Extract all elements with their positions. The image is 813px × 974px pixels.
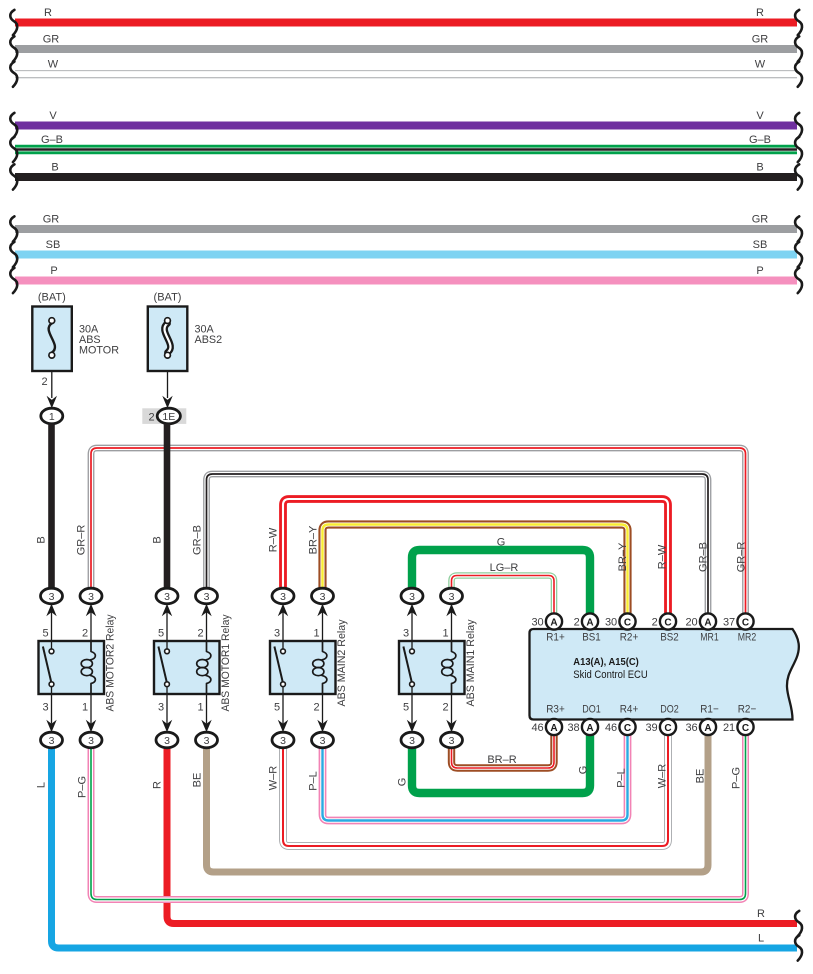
svg-text:A: A bbox=[586, 723, 593, 734]
pin lead bottom-left bbox=[166, 687, 168, 724]
connector oval 3 (top) bbox=[80, 588, 102, 604]
connector node 1 bbox=[41, 408, 63, 424]
svg-text:1: 1 bbox=[313, 628, 319, 640]
connector oval 3 (bottom) bbox=[401, 732, 423, 748]
svg-text:3: 3 bbox=[274, 628, 280, 640]
svg-text:(BAT): (BAT) bbox=[38, 292, 66, 304]
svg-text:BE: BE bbox=[192, 773, 204, 788]
svg-text:3: 3 bbox=[449, 735, 455, 747]
svg-text:L: L bbox=[36, 782, 48, 788]
ECU pin 38 DO1 bbox=[582, 719, 598, 735]
svg-text:38: 38 bbox=[567, 722, 579, 734]
svg-text:30: 30 bbox=[531, 617, 543, 629]
svg-text:C: C bbox=[624, 617, 631, 628]
svg-text:G: G bbox=[497, 537, 506, 549]
svg-text:B: B bbox=[756, 162, 763, 174]
svg-text:5: 5 bbox=[403, 702, 409, 714]
wire B (fuse 1 to relay1 pin5) bbox=[48, 424, 55, 589]
svg-text:3: 3 bbox=[403, 628, 409, 640]
ECU A13(A), A15(C) Skid Control ECU bbox=[530, 629, 799, 720]
pin lead top-left bbox=[282, 612, 284, 650]
pin lead bottom-right bbox=[90, 694, 92, 724]
svg-text:R4+: R4+ bbox=[620, 703, 639, 715]
svg-text:B: B bbox=[36, 536, 48, 543]
svg-text:C: C bbox=[742, 617, 749, 628]
connector oval 3 (top) bbox=[272, 588, 294, 604]
svg-text:2: 2 bbox=[652, 617, 658, 629]
svg-text:3: 3 bbox=[204, 591, 210, 603]
wire P bbox=[15, 277, 797, 285]
svg-text:ABS MOTOR2 Relay: ABS MOTOR2 Relay bbox=[105, 614, 117, 712]
pin lead bottom-left bbox=[411, 687, 413, 724]
ECU pin 36 R1− bbox=[700, 719, 716, 735]
svg-text:L: L bbox=[758, 933, 764, 945]
svg-text:1: 1 bbox=[49, 411, 55, 423]
wire R-W (relay3 pin3 to ECU BS2) bbox=[283, 499, 668, 614]
connector oval 3 (top) bbox=[312, 588, 334, 604]
svg-text:C: C bbox=[624, 723, 631, 734]
fuse pin 2 lead bbox=[51, 371, 53, 398]
svg-text:A: A bbox=[704, 723, 711, 734]
svg-text:3: 3 bbox=[42, 702, 48, 714]
svg-text:5: 5 bbox=[274, 702, 280, 714]
wire W bbox=[15, 70, 797, 78]
ECU pin 30 R2+ bbox=[619, 613, 635, 629]
svg-text:P: P bbox=[50, 265, 57, 277]
svg-text:20: 20 bbox=[685, 617, 697, 629]
svg-text:B: B bbox=[51, 162, 58, 174]
relay ABS MOTOR1 Relay bbox=[154, 641, 220, 694]
wire L (relay1 pin3 to right edge) bbox=[52, 748, 798, 948]
svg-text:3: 3 bbox=[280, 735, 286, 747]
svg-text:2: 2 bbox=[442, 702, 448, 714]
svg-text:39: 39 bbox=[645, 722, 657, 734]
pin lead top-left bbox=[51, 612, 53, 650]
svg-text:R: R bbox=[152, 781, 164, 789]
svg-text:BE: BE bbox=[695, 769, 707, 784]
svg-text:C: C bbox=[664, 723, 671, 734]
connector oval 3 (bottom) bbox=[272, 732, 294, 748]
relay switch contact bbox=[158, 647, 166, 682]
connector oval 3 (bottom) bbox=[156, 732, 178, 748]
svg-text:R3+: R3+ bbox=[546, 703, 565, 715]
svg-text:3: 3 bbox=[280, 591, 286, 603]
svg-text:W: W bbox=[48, 59, 59, 71]
fusible link 30A ABS2 bbox=[148, 307, 188, 372]
svg-text:ABS MOTOR1 Relay: ABS MOTOR1 Relay bbox=[220, 614, 232, 712]
svg-text:36: 36 bbox=[685, 722, 697, 734]
wire BE (relay2 pin1 to ECU R1-) bbox=[207, 735, 709, 872]
svg-text:37: 37 bbox=[723, 617, 735, 629]
svg-text:V: V bbox=[49, 110, 57, 122]
svg-text:A13(A), A15(C): A13(A), A15(C) bbox=[573, 657, 639, 668]
pin lead bottom-left bbox=[51, 687, 53, 724]
svg-text:C: C bbox=[664, 617, 671, 628]
relay coil bbox=[322, 641, 327, 660]
svg-text:DO1: DO1 bbox=[582, 703, 601, 715]
ECU pin 37 MR2 bbox=[737, 613, 753, 629]
svg-text:2: 2 bbox=[82, 628, 88, 640]
connector oval 3 (top) bbox=[196, 588, 218, 604]
svg-text:BS2: BS2 bbox=[660, 631, 679, 643]
svg-text:GR–B: GR–B bbox=[192, 525, 204, 555]
svg-text:5: 5 bbox=[42, 628, 48, 640]
pin lead bottom-left bbox=[282, 687, 284, 724]
connector node 2 1E bbox=[142, 408, 186, 424]
svg-text:G: G bbox=[397, 778, 409, 787]
relay coil bbox=[206, 641, 211, 660]
svg-text:W–R: W–R bbox=[268, 766, 280, 791]
svg-text:G–B: G–B bbox=[749, 134, 771, 146]
svg-text:BR–Y: BR–Y bbox=[308, 525, 320, 554]
relay switch contact bbox=[43, 647, 51, 682]
pin lead top-left bbox=[166, 612, 168, 650]
pin lead bottom-right bbox=[206, 694, 208, 724]
svg-text:5: 5 bbox=[158, 628, 164, 640]
svg-text:DO2: DO2 bbox=[660, 703, 679, 715]
connector oval 3 (bottom) bbox=[441, 732, 463, 748]
svg-text:3: 3 bbox=[164, 591, 170, 603]
connector oval 3 (bottom) bbox=[196, 732, 218, 748]
connector oval 3 (top) bbox=[41, 588, 63, 604]
svg-text:GR–R: GR–R bbox=[76, 525, 88, 556]
svg-text:B: B bbox=[152, 536, 164, 543]
svg-text:GR–R: GR–R bbox=[736, 542, 748, 573]
ECU pin 46 R3+ bbox=[546, 719, 562, 735]
svg-text:2: 2 bbox=[41, 376, 47, 388]
ECU pin 20 MR1 bbox=[700, 613, 716, 629]
wire G (relay4 pin5 to ECU DO1) bbox=[412, 735, 590, 793]
ECU pin 2 BS2 bbox=[660, 613, 676, 629]
wire W-R (relay3 pin5 to ECU DO2) bbox=[283, 735, 668, 846]
svg-text:A: A bbox=[704, 617, 711, 628]
svg-text:R: R bbox=[756, 7, 764, 19]
svg-text:3: 3 bbox=[49, 591, 55, 603]
fuse pin 2 lead bbox=[167, 371, 169, 398]
svg-text:R–W: R–W bbox=[657, 544, 669, 569]
connector oval 3 (top) bbox=[441, 588, 463, 604]
wire R bbox=[15, 19, 797, 27]
svg-text:3: 3 bbox=[409, 735, 415, 747]
wire P-L (relay3 pin2 to ECU R4+) bbox=[323, 735, 628, 821]
wire GR-R (relay1 pin2 to ECU MR2) bbox=[91, 448, 746, 614]
svg-text:2: 2 bbox=[148, 411, 154, 423]
svg-text:MR1: MR1 bbox=[700, 631, 719, 643]
relay ABS MOTOR2 Relay bbox=[39, 641, 105, 694]
connector oval 3 (top) bbox=[401, 588, 423, 604]
svg-text:3: 3 bbox=[158, 702, 164, 714]
svg-text:46: 46 bbox=[531, 722, 543, 734]
wire B bbox=[15, 173, 797, 181]
wire R (relay2 pin3 to right edge) bbox=[167, 748, 797, 924]
svg-text:1: 1 bbox=[442, 628, 448, 640]
svg-text:GR: GR bbox=[752, 34, 769, 46]
svg-text:BR–Y: BR–Y bbox=[617, 542, 629, 571]
svg-text:SB: SB bbox=[753, 239, 768, 251]
ECU pin 30 R1+ bbox=[546, 613, 562, 629]
svg-text:ABS MAIN1 Relay: ABS MAIN1 Relay bbox=[465, 619, 477, 707]
svg-text:W–R: W–R bbox=[657, 764, 669, 789]
svg-text:MR2: MR2 bbox=[738, 631, 757, 643]
wire P-G (relay1 pin1 to ECU R2-) bbox=[91, 735, 746, 900]
svg-text:R: R bbox=[44, 7, 52, 19]
svg-text:GR: GR bbox=[43, 214, 60, 226]
svg-text:3: 3 bbox=[88, 591, 94, 603]
pin lead top-right bbox=[90, 612, 92, 641]
wire LG-R (relay4 pin1 to ECU R1+) bbox=[452, 576, 555, 614]
wire B (fuse 1E to relay2 pin5) bbox=[164, 424, 171, 589]
pin lead bottom-right bbox=[451, 694, 453, 724]
svg-text:3: 3 bbox=[320, 735, 326, 747]
wire GR bbox=[15, 45, 797, 53]
svg-text:GR: GR bbox=[752, 214, 769, 226]
svg-text:3: 3 bbox=[320, 591, 326, 603]
connector oval 3 (top) bbox=[156, 588, 178, 604]
pin lead top-right bbox=[206, 612, 208, 641]
svg-text:ABS2: ABS2 bbox=[195, 334, 223, 346]
ECU pin 39 DO2 bbox=[660, 719, 676, 735]
relay ABS MAIN2 Relay bbox=[270, 641, 336, 694]
svg-text:P–L: P–L bbox=[308, 771, 320, 791]
wire BR-R (relay4 pin2 to ECU R3+) bbox=[452, 735, 555, 768]
svg-text:P–G: P–G bbox=[77, 776, 89, 798]
pin lead top-left bbox=[411, 612, 413, 650]
svg-text:LG–R: LG–R bbox=[490, 562, 519, 574]
svg-text:3: 3 bbox=[88, 735, 94, 747]
svg-text:GR: GR bbox=[43, 34, 60, 46]
svg-text:BS1: BS1 bbox=[582, 631, 601, 643]
ECU pin 21 R2− bbox=[737, 719, 753, 735]
relay switch contact bbox=[403, 647, 411, 682]
svg-text:A: A bbox=[550, 723, 557, 734]
connector oval 3 (bottom) bbox=[80, 732, 102, 748]
wire GR bbox=[15, 225, 797, 233]
svg-text:2: 2 bbox=[574, 617, 580, 629]
svg-text:30: 30 bbox=[605, 617, 617, 629]
svg-text:3: 3 bbox=[49, 735, 55, 747]
svg-text:3: 3 bbox=[409, 591, 415, 603]
svg-text:R1+: R1+ bbox=[546, 631, 565, 643]
svg-text:Skid Control ECU: Skid Control ECU bbox=[573, 669, 648, 681]
pin lead top-right bbox=[451, 612, 453, 641]
svg-text:1: 1 bbox=[82, 702, 88, 714]
svg-text:SB: SB bbox=[46, 239, 61, 251]
svg-text:G–B: G–B bbox=[41, 134, 63, 146]
svg-text:W: W bbox=[755, 59, 766, 71]
svg-text:R1−: R1− bbox=[700, 703, 719, 715]
svg-text:2: 2 bbox=[197, 628, 203, 640]
wire G (relay4 pin3 to ECU BS1) bbox=[412, 550, 590, 614]
relay ABS MAIN1 Relay bbox=[399, 641, 465, 694]
svg-text:P–L: P–L bbox=[616, 768, 628, 788]
svg-text:A: A bbox=[550, 617, 557, 628]
svg-text:GR–B: GR–B bbox=[698, 542, 710, 572]
svg-text:46: 46 bbox=[605, 722, 617, 734]
svg-text:P–G: P–G bbox=[731, 767, 743, 789]
svg-text:ABS MAIN2 Relay: ABS MAIN2 Relay bbox=[336, 619, 348, 707]
svg-text:R2+: R2+ bbox=[620, 631, 639, 643]
svg-text:2: 2 bbox=[313, 702, 319, 714]
svg-text:3: 3 bbox=[449, 591, 455, 603]
svg-text:1E: 1E bbox=[162, 411, 175, 423]
connector oval 3 (bottom) bbox=[41, 732, 63, 748]
relay switch contact bbox=[274, 647, 282, 682]
svg-text:G: G bbox=[578, 766, 590, 775]
wire GR-B (relay2 pin2 to ECU MR1) bbox=[207, 474, 709, 614]
connector oval 3 (bottom) bbox=[312, 732, 334, 748]
svg-text:R: R bbox=[757, 908, 765, 920]
svg-text:21: 21 bbox=[723, 722, 735, 734]
fuse 30A ABS MOTOR bbox=[32, 307, 72, 372]
wire SB bbox=[15, 251, 797, 259]
svg-text:A: A bbox=[586, 617, 593, 628]
svg-text:BR–R: BR–R bbox=[487, 754, 516, 766]
wire G-B bbox=[15, 145, 797, 154]
ECU pin 46 R4+ bbox=[619, 719, 635, 735]
ECU pin 2 BS1 bbox=[582, 613, 598, 629]
relay coil bbox=[90, 641, 95, 660]
pin lead top-right bbox=[322, 612, 324, 641]
relay coil bbox=[451, 641, 456, 660]
svg-text:R–W: R–W bbox=[268, 527, 280, 552]
svg-text:3: 3 bbox=[164, 735, 170, 747]
wire V bbox=[15, 122, 797, 130]
svg-text:V: V bbox=[756, 110, 764, 122]
svg-text:3: 3 bbox=[204, 735, 210, 747]
svg-text:R2−: R2− bbox=[738, 703, 757, 715]
svg-text:1: 1 bbox=[197, 702, 203, 714]
svg-text:(BAT): (BAT) bbox=[154, 292, 182, 304]
pin lead bottom-right bbox=[322, 694, 324, 724]
svg-text:C: C bbox=[742, 723, 749, 734]
svg-text:P: P bbox=[756, 265, 763, 277]
wire BR-Y (relay3 pin1 to ECU R2+) bbox=[323, 525, 628, 614]
svg-text:MOTOR: MOTOR bbox=[79, 345, 119, 357]
